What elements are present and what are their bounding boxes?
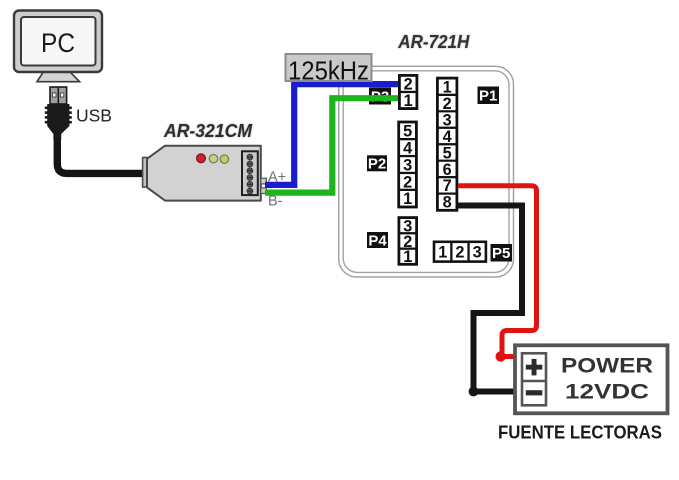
svg-text:P1: P1 <box>479 88 497 105</box>
label P2 <box>367 155 387 172</box>
plus terminal <box>526 359 543 376</box>
svg-text:5: 5 <box>443 144 452 162</box>
USB plug body <box>45 104 72 140</box>
svg-text:2: 2 <box>403 173 412 191</box>
AR-721H board outline <box>339 66 514 277</box>
label P1 <box>478 87 500 105</box>
svg-text:8: 8 <box>443 194 452 212</box>
wire RS485 B- green <box>265 98 400 192</box>
svg-text:6: 6 <box>443 161 452 179</box>
AR-321CM terminal block <box>242 151 258 195</box>
svg-text:125kHz: 125kHz <box>288 57 369 85</box>
label P4 <box>367 232 388 249</box>
svg-text:3: 3 <box>473 244 482 262</box>
PC monitor screen <box>21 17 96 66</box>
PC monitor outer frame <box>14 11 102 73</box>
svg-text:4: 4 <box>403 140 412 158</box>
svg-text:P5: P5 <box>492 245 510 262</box>
svg-text:12VDC: 12VDC <box>565 380 649 404</box>
LED green 2 <box>220 155 228 163</box>
svg-text:5: 5 <box>403 123 412 141</box>
connector P4 <box>398 216 419 266</box>
svg-text:2: 2 <box>443 95 452 113</box>
pin B- <box>261 188 267 194</box>
svg-text:2: 2 <box>404 76 413 94</box>
svg-text:1: 1 <box>438 244 447 262</box>
USB cable wire <box>57 138 148 173</box>
power terminal block <box>522 353 546 405</box>
junction node black <box>469 387 479 397</box>
125kHz antenna label <box>286 54 372 85</box>
pin A+ <box>261 178 267 184</box>
svg-text:2: 2 <box>455 244 464 262</box>
svg-text:AR-321CM: AR-321CM <box>163 121 253 141</box>
connector P3 <box>398 74 418 110</box>
svg-text:4: 4 <box>443 128 452 146</box>
USB plug metal shield <box>50 87 67 104</box>
LED green 1 <box>209 155 217 163</box>
AR-321CM left plug tab <box>143 158 150 188</box>
svg-text:1: 1 <box>403 190 412 208</box>
svg-text:P2: P2 <box>368 156 386 173</box>
junction node red <box>496 351 506 361</box>
svg-text:POWER: POWER <box>561 354 654 378</box>
minus terminal <box>526 390 543 395</box>
LED red <box>197 154 206 163</box>
svg-text:7: 7 <box>443 177 452 195</box>
PC monitor stand <box>37 72 80 81</box>
svg-text:3: 3 <box>443 111 452 129</box>
AR-321CM converter body <box>147 146 261 201</box>
svg-text:FUENTE LECTORAS: FUENTE LECTORAS <box>498 423 662 443</box>
svg-text:1: 1 <box>443 78 452 96</box>
svg-text:1: 1 <box>404 92 413 110</box>
connector P2 <box>397 121 418 209</box>
wire GND black <box>458 206 522 392</box>
svg-text:PC: PC <box>41 28 75 58</box>
svg-text:1: 1 <box>403 248 412 266</box>
connector P5 <box>433 241 488 263</box>
power supply box <box>515 345 668 413</box>
svg-text:P4: P4 <box>368 232 387 249</box>
svg-text:USB: USB <box>76 106 112 126</box>
label P3 <box>369 88 391 106</box>
connector P1 <box>436 77 458 212</box>
svg-text:AR-721H: AR-721H <box>397 32 470 52</box>
label P5 <box>491 244 513 262</box>
wire RS485 A+ blue <box>265 84 400 185</box>
svg-text:3: 3 <box>403 156 412 174</box>
svg-text:B-: B- <box>268 194 283 210</box>
wire +12V red <box>458 186 537 357</box>
